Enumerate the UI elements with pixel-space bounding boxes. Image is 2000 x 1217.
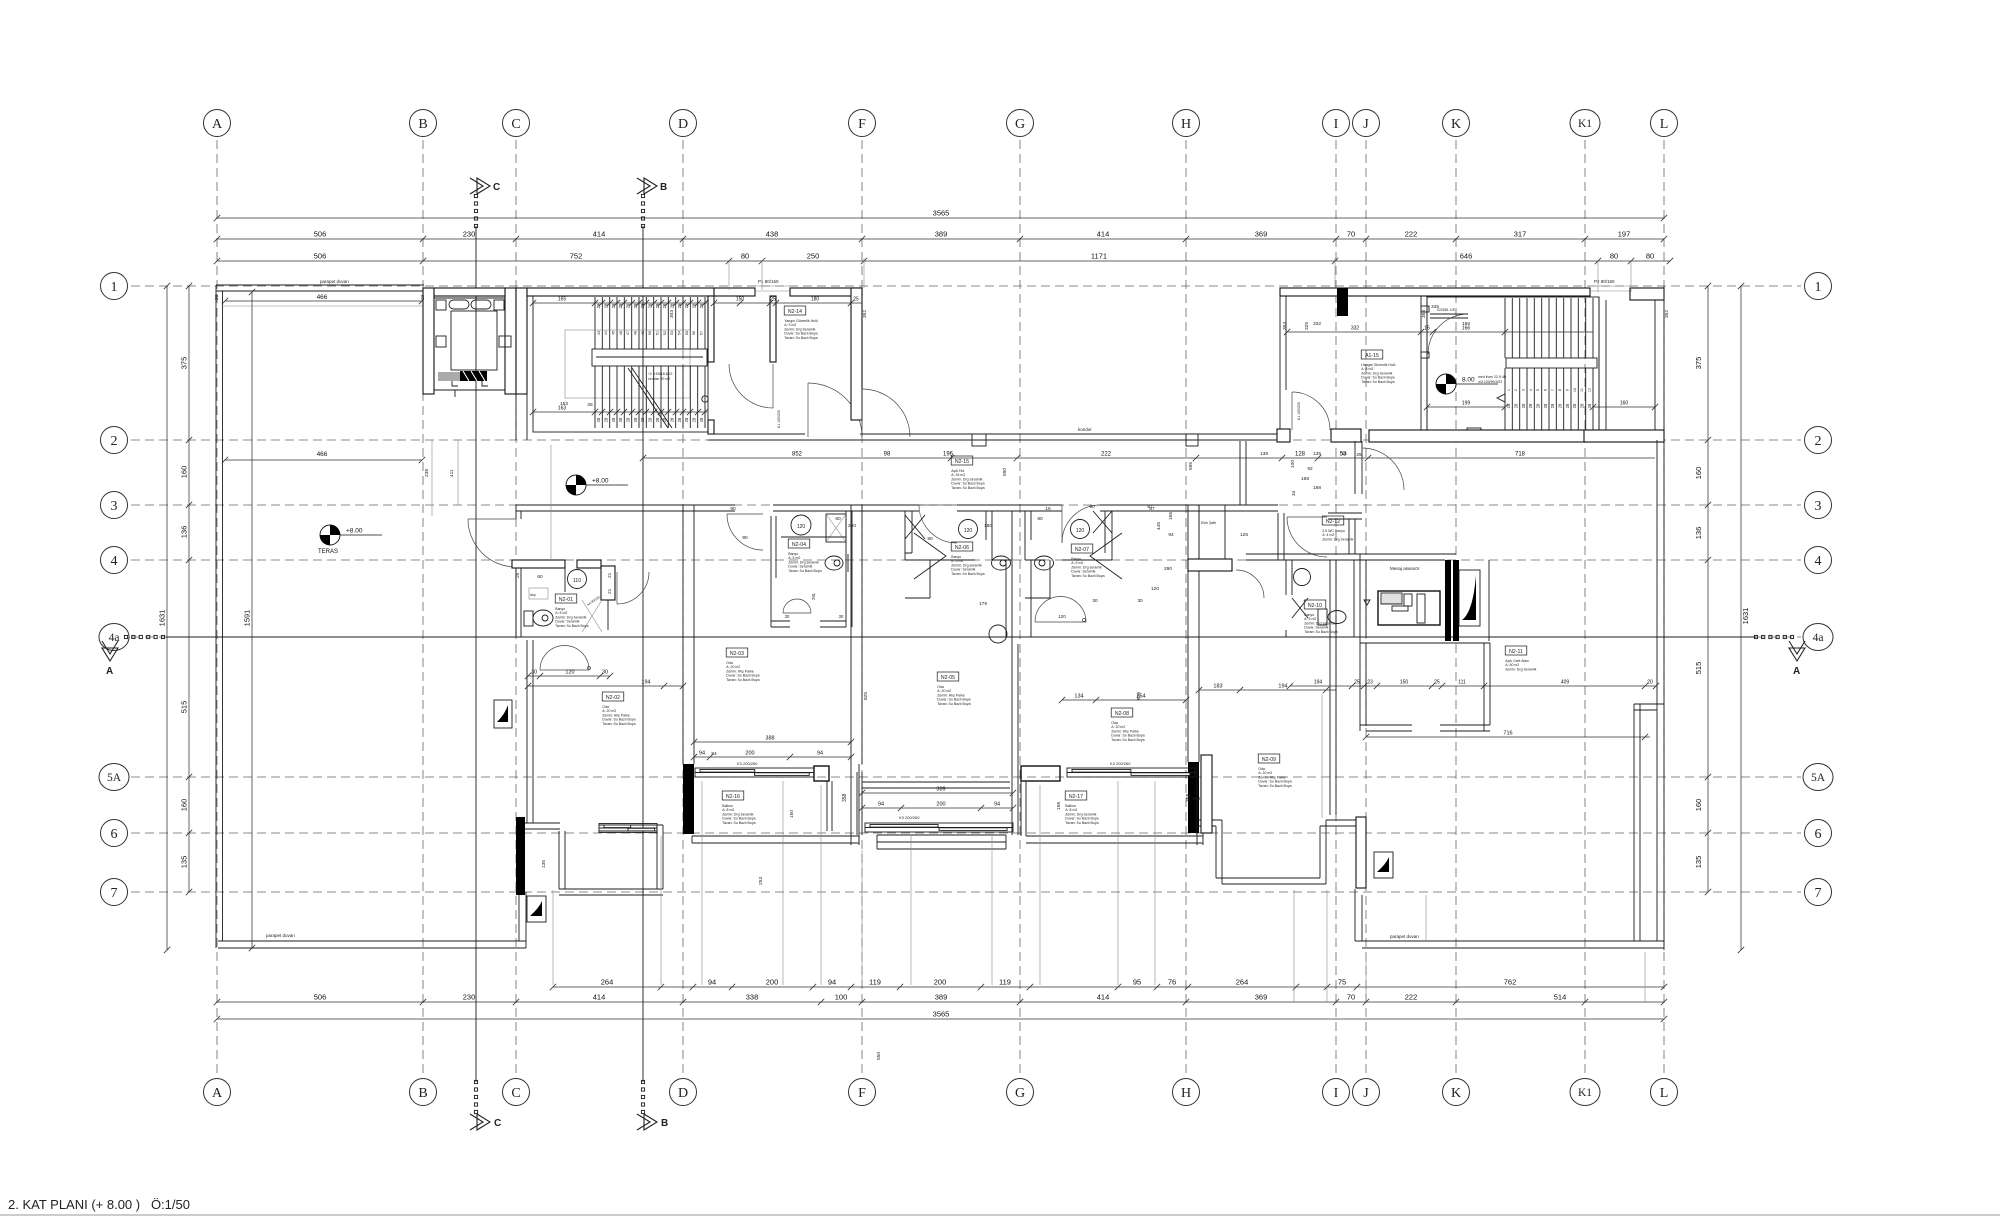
svg-text:C: C — [511, 1086, 520, 1101]
svg-text:506: 506 — [314, 252, 327, 261]
svg-text:136: 136 — [180, 526, 189, 539]
grid bubble L bottom — [1651, 1079, 1678, 1106]
svg-text:Tavan: Su Bazlı Boya: Tavan: Su Bazlı Boya — [784, 336, 817, 340]
svg-text:550: 550 — [876, 1052, 882, 1060]
svg-text:8.00: 8.00 — [1462, 377, 1475, 384]
massage elevator shaft thick wall — [1445, 560, 1451, 641]
svg-text:389: 389 — [935, 993, 948, 1002]
grid bubble C top — [503, 110, 530, 137]
svg-text:7: 7 — [1815, 886, 1822, 901]
right hall niche — [1430, 314, 1468, 318]
svg-text:134: 134 — [1074, 694, 1083, 700]
svg-text:F: F — [858, 1086, 866, 1101]
svg-text:90: 90 — [730, 506, 736, 512]
svg-text:120: 120 — [1151, 586, 1159, 592]
svg-text:Tavan: Su Bazlı Boya: Tavan: Su Bazlı Boya — [722, 821, 755, 825]
svg-text:30: 30 — [531, 670, 537, 676]
svg-text:P2 80/150: P2 80/150 — [1594, 279, 1615, 284]
grid bubble 7 right — [1805, 879, 1832, 906]
svg-text:H: H — [1181, 117, 1191, 132]
bathroom N2-07 shower — [1093, 511, 1112, 533]
svg-text:590: 590 — [1002, 468, 1008, 476]
svg-text:28: 28 — [1536, 403, 1541, 408]
svg-text:28: 28 — [1587, 403, 1592, 408]
svg-text:389: 389 — [935, 230, 948, 239]
grid bubble L top — [1651, 110, 1678, 137]
grid bubble 4a left — [99, 624, 129, 651]
grid bubble A top — [204, 110, 231, 137]
svg-text:Tavan: Su Bazlı Boya: Tavan: Su Bazlı Boya — [602, 722, 635, 726]
svg-text:200: 200 — [934, 978, 947, 987]
svg-text:4: 4 — [111, 554, 118, 569]
svg-text:165: 165 — [1168, 512, 1174, 520]
svg-text:C: C — [493, 182, 500, 193]
unit C-D left wall below 4a — [527, 640, 533, 823]
svg-text:200: 200 — [936, 802, 945, 808]
hall level mark +8.00 — [566, 475, 628, 495]
svg-text:28: 28 — [699, 417, 704, 422]
svg-text:369: 369 — [1255, 230, 1268, 239]
svg-text:136: 136 — [1694, 527, 1703, 540]
bathroom N2-01 toilet — [524, 611, 533, 626]
svg-text:25: 25 — [1434, 680, 1440, 686]
bathroom N2-01 sink — [568, 570, 587, 589]
right stair hall door — [1428, 314, 1468, 354]
wedge window icon right — [1459, 570, 1480, 626]
unit H-I dims — [1196, 687, 1336, 693]
balcony N2-16 slab edge — [692, 836, 859, 843]
room N2-03 label — [726, 648, 759, 682]
wall at column F top block — [851, 288, 862, 420]
svg-text:353: 353 — [1421, 310, 1427, 318]
svg-text:80: 80 — [1646, 252, 1654, 261]
svg-text:28: 28 — [596, 303, 601, 308]
svg-text:138: 138 — [1260, 451, 1268, 457]
svg-text:10: 10 — [1573, 388, 1577, 392]
svg-text:196: 196 — [943, 452, 954, 458]
grid bubble B top — [410, 110, 437, 137]
svg-text:veralan 20 m2: veralan 20 m2 — [648, 377, 670, 381]
svg-text:28: 28 — [655, 303, 660, 308]
grid bubble D top — [670, 110, 697, 137]
open cafe walls — [1360, 643, 1490, 731]
svg-text:120: 120 — [1076, 528, 1085, 534]
balcony N2-16 side walls — [827, 764, 859, 845]
svg-text:25: 25 — [1356, 452, 1362, 458]
svg-text:264: 264 — [601, 978, 614, 987]
svg-text:222: 222 — [1405, 230, 1418, 239]
svg-text:med liven 22.5 4D: med liven 22.5 4D — [1478, 375, 1507, 379]
units top wall along row 3 — [516, 505, 1362, 519]
grid bubble I top — [1323, 110, 1350, 137]
bathroom N2-06 walls — [905, 511, 1012, 644]
svg-text:A: A — [106, 666, 113, 677]
right stair right walls — [1599, 297, 1606, 432]
svg-text:28: 28 — [692, 303, 697, 308]
svg-text:60: 60 — [835, 516, 841, 522]
svg-text:28: 28 — [692, 417, 697, 422]
svg-text:28: 28 — [604, 417, 609, 422]
svg-text:Zemin: Drg Seramik: Zemin: Drg Seramik — [1505, 667, 1536, 671]
svg-text:194: 194 — [641, 680, 650, 686]
section line B-B vertical — [642, 226, 644, 1082]
svg-text:94: 94 — [699, 751, 705, 757]
svg-text:47: 47 — [626, 331, 630, 335]
svg-text:Elek Şaftı: Elek Şaftı — [1201, 521, 1216, 525]
balcony N2-16 left pier — [683, 764, 694, 834]
svg-text:1631: 1631 — [158, 610, 167, 627]
right terrace pier — [1356, 817, 1366, 888]
svg-text:150: 150 — [789, 810, 795, 818]
svg-text:28: 28 — [662, 417, 667, 422]
massage elevator room walls — [1336, 554, 1490, 643]
balcony N2-17 slab edge — [1026, 836, 1203, 843]
svg-text:+8.00: +8.00 — [592, 478, 609, 485]
svg-text:P1 80/150: P1 80/150 — [758, 279, 779, 284]
grid bubble H top — [1173, 110, 1200, 137]
svg-text:7: 7 — [111, 886, 118, 901]
svg-text:5A: 5A — [1811, 772, 1826, 784]
svg-text:TERAS: TERAS — [318, 549, 338, 555]
svg-text:Tavan: Su Bazlı Boya: Tavan: Su Bazlı Boya — [1361, 380, 1394, 384]
svg-text:466: 466 — [317, 451, 328, 458]
svg-text:150: 150 — [736, 297, 745, 303]
svg-text:K: K — [1451, 117, 1461, 132]
svg-text:+8.00: +8.00 — [346, 528, 363, 535]
svg-text:90: 90 — [927, 536, 933, 542]
svg-text:120: 120 — [1058, 614, 1066, 619]
grid bubble D bottom — [670, 1079, 697, 1106]
svg-text:44: 44 — [604, 331, 608, 335]
bathroom N2-01 label — [555, 594, 588, 628]
svg-text:80: 80 — [1610, 252, 1618, 261]
grid bubble 6 left — [101, 820, 128, 847]
bathroom N2-06 toilet — [989, 625, 1007, 643]
svg-text:414: 414 — [1097, 993, 1110, 1002]
grid bubble G top — [1007, 110, 1034, 137]
svg-text:54: 54 — [678, 331, 682, 335]
svg-text:515: 515 — [180, 701, 189, 714]
fire hall N2-14 walls — [708, 296, 714, 362]
svg-text:762: 762 — [1504, 978, 1517, 987]
svg-text:180: 180 — [811, 297, 820, 303]
svg-text:126: 126 — [1240, 532, 1248, 538]
svg-text:150: 150 — [1400, 680, 1409, 686]
terrace level mark +8.00 TERAS — [318, 525, 382, 555]
svg-text:21: 21 — [607, 588, 613, 594]
svg-text:6: 6 — [1815, 827, 1822, 842]
stairwell left outer walls — [516, 288, 527, 394]
svg-text:166: 166 — [1462, 321, 1470, 327]
left dimension column spans — [186, 283, 192, 895]
svg-text:325: 325 — [1304, 322, 1310, 330]
section line A-A horizontal at row 4a — [166, 636, 1756, 638]
svg-text:D: D — [678, 117, 688, 132]
svg-text:94: 94 — [708, 978, 716, 987]
svg-text:445: 445 — [1156, 522, 1162, 530]
svg-text:48: 48 — [634, 331, 638, 335]
room N2-05 label — [937, 672, 970, 706]
balcony N2-17 right pier — [1201, 755, 1212, 833]
svg-text:28: 28 — [587, 402, 593, 408]
svg-text:28: 28 — [633, 417, 638, 422]
svg-text:716: 716 — [1503, 731, 1512, 737]
left terrace parapet walls — [216, 285, 424, 291]
svg-text:N2-11: N2-11 — [1509, 649, 1523, 655]
electrical shaft room — [1199, 505, 1225, 559]
svg-text:128: 128 — [1295, 452, 1306, 458]
svg-text:K: K — [1451, 1086, 1461, 1101]
svg-text:15: 15 — [1424, 326, 1430, 332]
svg-text:718: 718 — [1515, 452, 1526, 458]
svg-text:135: 135 — [541, 860, 547, 868]
balcony N2-16 window — [695, 768, 814, 777]
wedge window icon left 1 — [494, 700, 512, 728]
middle balcony dims — [859, 790, 1016, 796]
bathroom N2-06 shower door angular — [914, 533, 946, 579]
bathroom N2-10 shower — [1292, 598, 1308, 618]
unit divider wall at column D — [683, 505, 694, 764]
svg-text:1: 1 — [1815, 280, 1822, 295]
svg-text:28: 28 — [604, 303, 609, 308]
svg-text:352: 352 — [1664, 310, 1670, 318]
svg-text:28: 28 — [1506, 403, 1511, 408]
svg-text:238: 238 — [424, 469, 430, 477]
right stair hall wall — [1421, 296, 1427, 432]
svg-text:Mesaj asansör: Mesaj asansör — [1390, 566, 1420, 571]
bathroom N2-04 sink — [791, 515, 811, 535]
svg-text:194: 194 — [1314, 680, 1323, 686]
svg-text:411: 411 — [449, 469, 455, 477]
svg-text:160: 160 — [1694, 467, 1703, 480]
svg-text:358: 358 — [842, 793, 848, 802]
svg-text:28: 28 — [640, 417, 645, 422]
svg-text:28: 28 — [648, 417, 653, 422]
stairwell lower treads — [595, 366, 705, 428]
svg-text:J: J — [1363, 1086, 1369, 1101]
bottom dimension row grid spans — [214, 999, 1667, 1005]
grid bubble 3 right — [1805, 492, 1832, 519]
svg-text:K1: K1 — [1578, 1087, 1592, 1099]
svg-text:1: 1 — [111, 280, 118, 295]
svg-text:28: 28 — [1543, 403, 1548, 408]
svg-text:28: 28 — [648, 303, 653, 308]
svg-text:388: 388 — [765, 736, 774, 742]
svg-text:parapet duvarı: parapet duvarı — [320, 279, 349, 284]
svg-text:119: 119 — [999, 978, 1011, 987]
hall door to N2-12 — [1287, 517, 1327, 557]
grid bubble F top — [849, 110, 876, 137]
svg-text:G: G — [1015, 117, 1025, 132]
svg-text:6: 6 — [111, 827, 118, 842]
svg-text:Tavan: Su Bazlı Boya: Tavan: Su Bazlı Boya — [951, 486, 984, 490]
svg-text:345: 345 — [1431, 304, 1439, 310]
svg-text:338: 338 — [746, 993, 759, 1002]
svg-text:168: 168 — [1301, 476, 1309, 482]
svg-text:111: 111 — [1458, 680, 1466, 686]
corridor walls — [708, 434, 1280, 440]
room N2-08 dims — [1059, 697, 1189, 703]
svg-text:120: 120 — [964, 528, 973, 534]
bathroom N2-04 toilet — [825, 556, 843, 570]
svg-text:28: 28 — [655, 417, 660, 422]
svg-text:H: H — [1181, 1086, 1191, 1101]
svg-text:022081 1/8: 022081 1/8 — [1437, 308, 1455, 312]
svg-text:28: 28 — [611, 417, 616, 422]
svg-text:94: 94 — [817, 751, 823, 757]
room N2-09 label — [1258, 754, 1291, 788]
open cafe label N2-11 — [1505, 646, 1536, 671]
room N2-08 label — [1111, 708, 1144, 742]
grid bubble 2 right — [1805, 427, 1832, 454]
svg-text:m3 100/99.5/22: m3 100/99.5/22 — [1478, 380, 1502, 384]
svg-text:230: 230 — [463, 230, 476, 239]
J wall below corridor — [1355, 441, 1362, 494]
svg-text:135: 135 — [1694, 856, 1703, 869]
svg-text:28: 28 — [626, 303, 631, 308]
svg-text:57: 57 — [700, 331, 704, 335]
svg-text:264: 264 — [1236, 978, 1249, 987]
svg-text:28: 28 — [1572, 403, 1577, 408]
svg-text:110: 110 — [573, 578, 581, 584]
unit divider wall at column I — [1330, 560, 1336, 815]
stairwell upper treads — [595, 297, 705, 349]
svg-text:F: F — [858, 117, 866, 132]
elevator car — [451, 311, 497, 370]
room F-G bottom wall — [862, 782, 1010, 788]
svg-text:253: 253 — [758, 877, 764, 885]
svg-text:51: 51 — [656, 331, 660, 335]
svg-text:28: 28 — [684, 303, 689, 308]
svg-text:466: 466 — [317, 294, 328, 301]
svg-text:1: 1 — [1507, 389, 1511, 391]
grid bubble J bottom — [1353, 1079, 1380, 1106]
svg-text:119: 119 — [869, 978, 881, 987]
svg-text:135: 135 — [180, 856, 189, 869]
svg-text:290: 290 — [1164, 566, 1172, 572]
grid bubble A bottom — [204, 1079, 231, 1106]
grid bubble 4 right — [1805, 547, 1832, 574]
column H pier black — [1188, 762, 1199, 833]
svg-text:3: 3 — [1522, 389, 1526, 391]
svg-text:514: 514 — [1554, 993, 1567, 1002]
grid bubble B bottom — [410, 1079, 437, 1106]
bathroom N2-04 inner door arc — [783, 599, 811, 613]
svg-text:25: 25 — [853, 297, 859, 303]
svg-text:438: 438 — [766, 230, 779, 239]
svg-text:28: 28 — [1580, 403, 1585, 408]
svg-text:K1 100/220: K1 100/220 — [777, 410, 781, 428]
svg-text:N2-08: N2-08 — [1115, 711, 1129, 717]
bathroom N2-04 shower — [826, 514, 846, 542]
svg-text:parapet duvarı: parapet duvarı — [266, 933, 295, 938]
svg-text:80: 80 — [741, 252, 749, 261]
svg-text:Tavan: Su Bazlı Boya: Tavan: Su Bazlı Boya — [951, 572, 984, 576]
svg-text:30: 30 — [602, 670, 608, 676]
corridor notches — [972, 434, 986, 446]
grid bubble 4a right — [1803, 624, 1833, 651]
svg-text:K1 100/220: K1 100/220 — [1297, 402, 1301, 420]
svg-text:369: 369 — [1255, 993, 1268, 1002]
svg-text:199: 199 — [1462, 401, 1471, 407]
grid bubble K top — [1443, 110, 1470, 137]
svg-text:28: 28 — [677, 303, 682, 308]
svg-text:N2-16: N2-16 — [726, 794, 740, 800]
svg-text:Tavan: Su Bazlı Boya: Tavan: Su Bazlı Boya — [788, 569, 821, 573]
svg-text:C: C — [494, 1118, 501, 1129]
svg-text:28: 28 — [1558, 403, 1563, 408]
svg-text:28: 28 — [1528, 403, 1533, 408]
svg-text:Tavan: Su Bazlı Boya: Tavan: Su Bazlı Boya — [1071, 574, 1104, 578]
room N2-02 label — [602, 692, 635, 726]
grid bubble J top — [1353, 110, 1380, 137]
svg-text:303: 303 — [669, 310, 675, 318]
svg-text:28: 28 — [633, 303, 638, 308]
svg-text:koridor: koridor — [1078, 427, 1092, 432]
svg-text:752: 752 — [570, 252, 583, 261]
svg-text:28: 28 — [684, 417, 689, 422]
svg-text:B: B — [418, 1086, 427, 1101]
right block top wall — [1280, 288, 1590, 296]
svg-text:A: A — [212, 1086, 223, 1101]
balcony N2-17 window — [1067, 768, 1195, 777]
top dimension row total 3565 — [214, 215, 1667, 221]
grid bubble 5A left — [99, 764, 129, 791]
svg-text:2: 2 — [1815, 434, 1822, 449]
svg-text:4: 4 — [1529, 389, 1533, 391]
fire hall door to corridor — [808, 383, 862, 437]
svg-text:B: B — [661, 1118, 668, 1129]
svg-text:250: 250 — [807, 252, 820, 261]
middle balcony side walls — [857, 772, 1018, 835]
bottom dimension row window spans — [550, 984, 1667, 990]
door at corridor east end — [1362, 448, 1404, 490]
svg-text:N2-15: N2-15 — [955, 459, 969, 465]
grid bubble C bottom — [503, 1079, 530, 1106]
svg-text:358: 358 — [1192, 796, 1200, 802]
svg-text:94: 94 — [1168, 532, 1174, 538]
bathroom N2-06 sink — [959, 520, 978, 539]
svg-text:1171: 1171 — [1091, 252, 1107, 261]
bottom dimension row total 3565 — [214, 1016, 1667, 1022]
svg-text:8: 8 — [1558, 389, 1562, 391]
right block bottom wall — [1277, 429, 1290, 442]
svg-text:+2. 150/18.5/22: +2. 150/18.5/22 — [648, 372, 672, 376]
grid bubble 5A right — [1803, 764, 1833, 791]
wedge window icon right terrace — [1374, 852, 1393, 878]
top-left block dim row — [711, 300, 862, 306]
right fire hall A1-15 walls — [1280, 296, 1286, 440]
svg-text:L: L — [1660, 117, 1669, 132]
svg-text:28: 28 — [670, 303, 675, 308]
svg-text:5: 5 — [1536, 389, 1540, 391]
room N2-09 bottom walls — [1199, 820, 1356, 884]
svg-text:N2-14: N2-14 — [788, 309, 802, 315]
room N2-02 interior dim — [525, 673, 613, 679]
svg-text:Tavan: Su Bazlı Boya: Tavan: Su Bazlı Boya — [1111, 738, 1144, 742]
corridor dimension line — [640, 455, 1655, 461]
svg-text:20: 20 — [214, 294, 220, 300]
svg-text:197: 197 — [1618, 230, 1631, 239]
svg-text:595: 595 — [1188, 462, 1194, 470]
N2-12 side walls — [1278, 513, 1355, 560]
svg-text:60: 60 — [537, 574, 543, 580]
elek shaft door — [1236, 570, 1264, 598]
svg-text:20: 20 — [420, 294, 426, 300]
svg-text:95: 95 — [1133, 978, 1141, 987]
svg-text:222: 222 — [1101, 452, 1112, 458]
svg-text:N2-07: N2-07 — [1075, 547, 1089, 553]
